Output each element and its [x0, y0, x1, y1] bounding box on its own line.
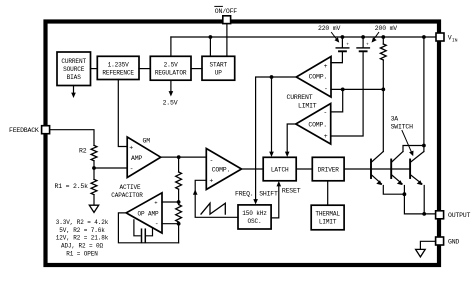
svg-text:200 mV: 200 mV [375, 25, 398, 32]
svg-text:1.235V: 1.235V [108, 62, 130, 69]
svg-text:R1 = 2.5k: R1 = 2.5k [55, 183, 89, 190]
svg-text:R1 = OPEN: R1 = OPEN [66, 250, 98, 257]
comparator: main PWM COMP [206, 149, 241, 190]
comparator: current limit COMP upper [296, 57, 331, 98]
svg-text:ACTIVE: ACTIVE [119, 184, 141, 191]
battery 220mV cell [341, 37, 343, 47]
wire: branch down to lower comp inverting input [331, 89, 343, 112]
svg-text:12V, R2 = 21.8k: 12V, R2 = 21.8k [56, 235, 109, 242]
arrow: into latch top [285, 152, 290, 157]
node: GM output / compensation chain [177, 155, 181, 159]
svg-text:-: - [323, 109, 327, 116]
wire: oscillator reset to latch [271, 185, 279, 218]
box: 150 kHz OSC. [238, 205, 271, 229]
pin VIN [436, 33, 444, 41]
node: rail to start-up branch [209, 35, 213, 39]
wire: reference box to regulator box [139, 68, 150, 70]
capacitor plate right [144, 229, 146, 242]
wire: reference down to GM amp non-inverting input [118, 80, 127, 147]
svg-text:GM: GM [143, 138, 151, 145]
svg-text:2.5V: 2.5V [163, 99, 178, 106]
resistor: compensation upper [176, 172, 182, 189]
wire: lower comp output to latch top [287, 124, 296, 154]
svg-text:REGULATOR: REGULATOR [155, 70, 187, 77]
wire: between compensation resistors [178, 189, 180, 204]
svg-text:+: + [366, 42, 369, 47]
svg-text:CAPACITOR: CAPACITOR [111, 192, 143, 199]
svg-text:LATCH: LATCH [271, 166, 289, 173]
wire: regulator to start-up [191, 68, 202, 70]
wire: divider tap to GM amp inverting input [94, 167, 127, 169]
svg-text:CURRENT: CURRENT [287, 94, 313, 101]
svg-text:START: START [210, 62, 228, 69]
resistor R1 [91, 179, 97, 194]
box: DRIVER [312, 157, 344, 181]
svg-text:OUTPUT: OUTPUT [448, 212, 471, 219]
node: Q3 emitter to output rail [422, 212, 426, 216]
pin GND [436, 237, 444, 245]
node: sense resistor bottom [381, 88, 385, 92]
node: op-amp inverting tap [177, 222, 181, 226]
svg-text:FREQ.: FREQ. [235, 191, 254, 198]
svg-text:SOURCE: SOURCE [63, 66, 85, 73]
arrow: into oscillator top [253, 199, 258, 204]
pin FEEDBACK [42, 126, 50, 134]
wire: driver output base rail [344, 168, 410, 170]
svg-text:+: + [346, 42, 349, 47]
wire: ON/OFF pin down to start-up top [226, 24, 228, 57]
node: divider tap [92, 166, 96, 170]
arrow: into latch top [269, 152, 274, 157]
box: CURRENT SOURCE BIAS [57, 52, 91, 86]
svg-text:-: - [210, 157, 214, 164]
svg-text:COMP.: COMP. [308, 121, 327, 128]
wire: node down to compensation resistor [178, 157, 180, 172]
capacitor: active capacitor right stub [147, 228, 153, 236]
svg-text:LIMIT: LIMIT [319, 218, 337, 225]
arrow: regulator 2.5V output down [170, 80, 172, 92]
wire: op-amp inverting input to chain [162, 223, 179, 225]
wire: GND pin to ground symbol [420, 241, 435, 249]
resistor: current sense [381, 35, 385, 39]
wire: branch down to latch top [271, 77, 273, 154]
wire: feedback pin to divider top [50, 130, 94, 146]
node: Q1/Q2 emitter junction [403, 192, 407, 196]
arrow: current source bias output down [73, 86, 75, 94]
svg-text:+: + [324, 133, 328, 140]
box: 1.235V REFERENCE [97, 56, 139, 79]
svg-text:220 mV: 220 mV [318, 25, 341, 32]
wire: GM amp output to comparator inverting input [161, 156, 207, 158]
svg-text:REFERENCE: REFERENCE [102, 70, 134, 77]
svg-text:150 kHz: 150 kHz [242, 210, 267, 217]
waveform: sawtooth [201, 203, 225, 214]
pin OUTPUT [436, 211, 444, 219]
svg-text:UP: UP [215, 70, 223, 77]
wire: rail left drop to 2.5V regulator top [170, 37, 172, 56]
svg-text:R2: R2 [79, 147, 87, 154]
battery 200mV cell [362, 37, 364, 47]
box: 2.5V REGULATOR [150, 56, 191, 80]
svg-text:OSC.: OSC. [247, 218, 261, 225]
wire: sense resistor to Q1 collector [382, 60, 384, 152]
arrow: reset into latch bottom [277, 181, 282, 186]
svg-text:BIAS: BIAS [67, 74, 82, 81]
capacitor plate left [141, 229, 143, 242]
svg-text:+: + [324, 63, 328, 70]
svg-text:3.3V, R2 = 4.2k: 3.3V, R2 = 4.2k [56, 219, 109, 226]
comparator: current limit COMP lower [296, 104, 331, 145]
wire: oscillator ramp to comparator non-inverting input [195, 180, 238, 217]
label 3A SWITCH with pointer [391, 116, 414, 131]
svg-text:LIMIT: LIMIT [298, 103, 317, 110]
svg-text:GND: GND [448, 238, 459, 245]
svg-text:+: + [209, 178, 213, 185]
wire: R2 to node [93, 161, 95, 180]
label 2.5V [163, 99, 178, 106]
svg-text:OP AMP: OP AMP [138, 210, 160, 217]
label 220 mV with pointer [318, 25, 341, 32]
label ON/OFF [215, 8, 238, 15]
wire: op-amp non-inverting input to chain [162, 201, 179, 203]
wire: latch to driver [296, 168, 312, 170]
svg-text:SWITCH: SWITCH [391, 123, 414, 130]
wire: 200mV cell down to lower comp non-inverting input [331, 52, 363, 136]
wire: upper comp output to freq shift [256, 77, 297, 202]
node: comp output to latch branch [270, 75, 274, 79]
arrow: ramp direction up [193, 189, 198, 194]
svg-text:IN: IN [452, 37, 458, 43]
node: collector tie [422, 144, 426, 148]
resistor: compensation lower [176, 205, 182, 223]
svg-text:SHIFT: SHIFT [259, 191, 278, 198]
svg-text:FEEDBACK: FEEDBACK [9, 127, 39, 134]
svg-text:5V, R2 = 7.6k: 5V, R2 = 7.6k [59, 227, 105, 234]
wire: VIN rail drop to switch collectors [422, 35, 426, 39]
wire: R1 to ground [93, 195, 95, 205]
svg-text:2.5V: 2.5V [164, 62, 179, 69]
wire: op-amp output feedback loop [118, 213, 178, 243]
resistor R2 [91, 145, 97, 160]
node: sense line branch to lower comp [341, 88, 345, 92]
svg-text:ON/OFF: ON/OFF [215, 8, 238, 15]
IC boundary border [46, 22, 440, 266]
svg-text:RESET: RESET [282, 188, 301, 195]
svg-text:ADJ, R2 = 0Ω: ADJ, R2 = 0Ω [61, 243, 104, 250]
svg-text:-: - [130, 166, 134, 173]
note: divider value table [56, 219, 109, 258]
label CURRENT LIMIT [287, 94, 317, 110]
svg-text:COMP.: COMP. [212, 167, 231, 174]
label 200 mV with pointer [375, 25, 398, 32]
op-amp GM AMP [127, 137, 161, 178]
wire: emitters to output rail [404, 194, 435, 214]
ground near GND pin [416, 249, 426, 257]
svg-text:-: - [155, 221, 159, 228]
transistor Q1 [370, 160, 372, 179]
box: THERMAL LIMIT [311, 205, 344, 230]
wire: bias box to reference box [91, 68, 98, 70]
wire: driver to thermal limit [327, 181, 329, 205]
node: op-amp non-inverting tap [177, 200, 181, 204]
capacitor: active capacitor left stub [134, 220, 140, 236]
svg-text:3A: 3A [391, 116, 399, 123]
wire: branch down to start-up top [209, 37, 211, 56]
box: LATCH [263, 157, 296, 181]
op-amp OP AMP (active capacitor) [126, 193, 162, 233]
wire: current sense line (upper comp inverting input) [331, 88, 383, 90]
wire: comparator output to latch [242, 168, 264, 170]
box: START UP [202, 56, 235, 80]
wire: upper comp non-inverting input to 220mV cell [331, 62, 342, 64]
pin ON/OFF [223, 16, 231, 24]
svg-text:CURRENT: CURRENT [61, 58, 86, 65]
wire: top VIN rail [171, 36, 436, 38]
wire: Q2 collector tie [403, 146, 424, 152]
ground below R1 [89, 205, 98, 212]
label ACTIVE CAPACITOR [111, 184, 143, 199]
transistor Q3 [409, 160, 411, 179]
svg-text:COMP.: COMP. [309, 73, 328, 80]
wire: chain bottom down to feedback loop [178, 222, 180, 243]
svg-text:DRIVER: DRIVER [318, 166, 340, 173]
transistor Q2 [390, 160, 392, 179]
svg-text:THERMAL: THERMAL [315, 210, 340, 217]
svg-text:+: + [129, 144, 133, 151]
svg-text:AMP: AMP [131, 155, 142, 162]
svg-text:-: - [324, 86, 328, 93]
